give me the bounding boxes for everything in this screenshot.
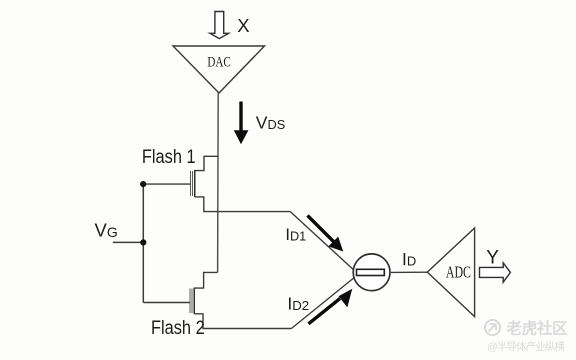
svg-text:老虎社区: 老虎社区	[506, 319, 569, 338]
wire: VG input	[113, 241, 144, 243]
arrow ID1 current direction	[308, 216, 344, 252]
hollow arrow: X digital input	[210, 12, 229, 39]
drain lead	[195, 156, 218, 170]
node: gate junction (top dot)	[140, 181, 146, 187]
floating gate lines	[189, 171, 191, 196]
drain lead	[194, 272, 217, 288]
summing node bar	[357, 269, 385, 275]
svg-text:DAC: DAC	[207, 53, 231, 70]
channel bar	[194, 170, 196, 197]
wire: DAC output drain bus (vertical)	[217, 93, 220, 272]
wire: summing node to ADC	[391, 271, 427, 273]
op-amp style triangle U1 DAC	[173, 46, 265, 93]
floating gate lines	[189, 289, 191, 314]
source lead	[194, 314, 291, 329]
node: VG junction dot	[140, 239, 146, 245]
arrow ID2 current direction	[309, 289, 353, 324]
watermark logo (tiger community)	[485, 320, 500, 335]
arrow VDS (solid down arrow)	[234, 102, 249, 145]
svg-text:X: X	[237, 15, 249, 36]
svg-text:ADC: ADC	[446, 264, 471, 282]
gate lead	[143, 302, 190, 304]
wire: ID1 diagonal to summing node	[290, 212, 356, 273]
hollow arrow: Y digital output	[480, 263, 511, 282]
gate lead	[143, 183, 190, 185]
svg-text:Flash 1: Flash 1	[142, 146, 196, 168]
transistor Q1 Flash 1 (floating-gate NMOS)	[143, 156, 290, 211]
transistor Q2 Flash 2 (floating-gate NMOS)	[143, 272, 291, 328]
svg-text:@半导体产业纵横: @半导体产业纵横	[487, 340, 565, 353]
channel bar	[193, 288, 195, 315]
summing node U3 (circle with bar)	[353, 254, 390, 291]
wire: gate bus VG vertical	[142, 184, 144, 302]
svg-text:Flash 2: Flash 2	[151, 317, 205, 339]
wire: ID2 diagonal to summing node	[291, 275, 358, 329]
svg-text:Y: Y	[486, 248, 499, 269]
source lead	[195, 197, 290, 212]
op-amp style triangle U2 ADC	[427, 228, 474, 317]
